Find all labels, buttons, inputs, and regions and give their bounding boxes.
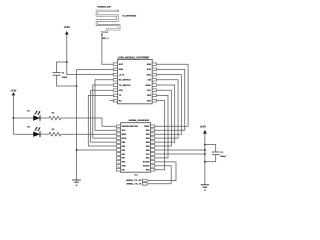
IC1 left pin 10 pad (116, 161, 120, 164)
svg-text:BL 2999 W3082: BL 2999 W3082 (123, 16, 137, 18)
svg-text:+3.3V: +3.3V (64, 27, 71, 29)
svg-text:RB5: RB5 (146, 146, 150, 148)
IC1 left pin 4 pad (116, 137, 120, 140)
svg-text:GND: GND (122, 166, 127, 168)
svg-text:100nF: 100nF (220, 156, 227, 158)
IC1 right pin 18 pad (151, 145, 155, 148)
U2 left pin 3 pad (113, 73, 117, 76)
U2 right pin 15 pad (152, 94, 156, 97)
wire switch net 4 U2 to IC1 (88, 95, 116, 146)
wire +3.3V branch to C2 (57, 62, 67, 73)
node junction C1 bottom (204, 161, 206, 163)
wire GND to IC1 pin GND (77, 149, 117, 151)
U2 left pin 4 pad (113, 79, 117, 82)
wire anode D2 (13, 133, 33, 135)
svg-text:PB3: PB3 (122, 150, 126, 152)
U2 right pin 11 pad (152, 73, 156, 76)
wire R1 to IC1 (61, 118, 116, 126)
capacitor C1 (212, 151, 220, 153)
IC1 right pin 14 pad (151, 129, 155, 132)
IC1 left pin 11 pad (116, 165, 120, 168)
svg-text:RC7/RX: RC7/RX (143, 162, 150, 164)
IC1 right pin 17 pad (151, 141, 155, 144)
svg-text:MOSI: MOSI (122, 138, 127, 140)
svg-text:+3.3V: +3.3V (119, 74, 125, 76)
U2 right pin 16 pad (152, 99, 156, 102)
svg-text:NSEL: NSEL (146, 85, 152, 87)
U2 left pin 1 pad (113, 63, 117, 66)
LED D1 (33, 115, 40, 120)
wire bus net 1 U2 pin 9 to IC1 (155, 64, 188, 126)
svg-text:+3.3V: +3.3V (10, 90, 17, 92)
U2 right pin 9 pad (152, 63, 156, 66)
op module U2 body (118, 59, 153, 103)
svg-text:SCK: SCK (147, 69, 152, 71)
U2 left pin 5 pad (113, 84, 117, 87)
wire antenna feed to U2 ANT pin (102, 35, 113, 65)
svg-text:PB0: PB0 (122, 162, 126, 164)
svg-text:RX_SWITCH: RX_SWITCH (119, 80, 131, 82)
U2 left pin 6 pad (113, 89, 117, 92)
node junction C1 top (204, 144, 206, 146)
wire +3.3V to U2 pin 3 (67, 35, 114, 75)
resistor R2 (49, 132, 61, 136)
wire D1 to R1 (40, 117, 49, 119)
connector serial flag RX (142, 179, 148, 182)
wire bus net 4 U2 pin 12 to IC1 (155, 80, 178, 138)
IC1 left pin 8 pad (116, 153, 120, 156)
LED D2 (33, 132, 40, 137)
U2 right pin 13 pad (152, 84, 156, 87)
svg-text:RB2: RB2 (146, 134, 150, 136)
svg-text:SDI: SDI (148, 80, 152, 82)
wire C1 top branch (205, 145, 216, 153)
capacitor C2 (53, 72, 61, 74)
svg-text:TX_SWITCH: TX_SWITCH (119, 85, 131, 87)
IC1 left pin 2 pad (116, 129, 120, 132)
wire C1 bottom branch (205, 155, 216, 162)
IC1 right pin 16 pad (151, 137, 155, 140)
resistor R1 (49, 116, 61, 120)
IC1 left pin 3 pad (116, 133, 120, 136)
wire +3.3V LED rail (12, 95, 14, 134)
wire bus net 8 U2 pin 16 to IC1 (155, 101, 165, 170)
U2 right pin 12 pad (152, 79, 156, 82)
node junction C2/GND (76, 85, 78, 87)
ground (right) (201, 184, 210, 186)
svg-text:SDO: SDO (147, 74, 152, 76)
wire switch net 1 U2 to IC1 (95, 80, 116, 130)
wire switch net 3 U2 to IC1 (91, 90, 117, 142)
IC1 left pin 6 pad (116, 145, 120, 148)
IC1 right pin 13 pad (151, 125, 155, 128)
IC1 left pin 9 pad (116, 157, 120, 160)
wire bus net 3 U2 pin 11 to IC1 (155, 75, 182, 135)
U2 right pin 14 pad (152, 89, 156, 92)
svg-text:RB7: RB7 (146, 158, 150, 160)
svg-text:RC6/TX: RC6/TX (143, 166, 150, 168)
svg-text:PB1: PB1 (122, 158, 126, 160)
IC1 right pin 15 pad (151, 133, 155, 136)
node junction VCC/rail (204, 149, 206, 151)
svg-text:RB3: RB3 (146, 138, 150, 140)
U2 right pin 10 pad (152, 68, 156, 71)
U2 left pin 7 pad (113, 94, 117, 97)
U2 left pin 8 pad (113, 99, 117, 102)
antenna ANT1 meander (97, 11, 120, 35)
svg-text:PB5/P: PB5/P (144, 126, 150, 128)
wire IC1 TX to serial flag (148, 166, 171, 184)
svg-text:RB6: RB6 (146, 150, 150, 152)
IC1 right pin 19 pad (151, 149, 155, 152)
wire IC1 VCC to rail (155, 149, 205, 151)
wire anode D1 (13, 117, 33, 119)
IC1 left pin 12 pad (116, 168, 120, 171)
svg-text:100nF: 100nF (62, 77, 69, 79)
svg-text:+3.3V: +3.3V (200, 127, 207, 129)
IC1 left pin 5 pad (116, 141, 120, 144)
IC1 right pin 22 pad (151, 161, 155, 164)
wire C2 to GND net (57, 75, 77, 86)
IC1 left pin 1 pad (116, 125, 120, 128)
microcontroller IC1 body (121, 123, 151, 173)
IC1 left pin 7 pad (116, 149, 120, 152)
wire GND net vertical (77, 68, 114, 70)
IC1 right pin 24 pad (151, 168, 155, 171)
wire switch net 2 U2 to IC1 (93, 85, 117, 138)
IC1 right pin 20 pad (151, 153, 155, 156)
wire R2 to IC1 (61, 133, 116, 135)
node junction GND/IC1 (76, 149, 78, 151)
svg-text:PB2: PB2 (122, 154, 126, 156)
wire U2 RX stub (110, 100, 114, 102)
wire bus net 5 U2 pin 13 to IC1 (155, 85, 175, 142)
wire D2 to R2 (40, 133, 49, 135)
node junction LED rail (12, 117, 14, 119)
wire IC1 RX to serial flag (148, 162, 176, 181)
svg-text:SDN: SDN (147, 64, 152, 66)
wire right rail vertical (204, 134, 206, 185)
node junction +3.3V / C2 (66, 61, 68, 63)
ground (left) (72, 179, 81, 181)
wire IC1 GND to rail (155, 153, 205, 155)
svg-text:GND: GND (74, 182, 79, 184)
svg-text:MISO: MISO (122, 134, 127, 136)
connector serial flag TX (142, 183, 148, 186)
svg-text:RB1: RB1 (146, 130, 150, 132)
U2 left pin 2 pad (113, 68, 117, 71)
wire bus net 2 U2 pin 10 to IC1 (155, 69, 185, 130)
svg-text:PB5: PB5 (122, 142, 126, 144)
IC1 right pin 23 pad (151, 165, 155, 168)
svg-text:GND: GND (203, 187, 208, 189)
node junction GND/rail (204, 153, 206, 155)
wire bus net 6 U2 pin 14 to IC1 (155, 90, 172, 146)
wire bus net 7 U2 pin 15 to IC1 (155, 95, 168, 157)
svg-text:GND: GND (119, 69, 124, 71)
IC1 right pin 21 pad (151, 157, 155, 160)
